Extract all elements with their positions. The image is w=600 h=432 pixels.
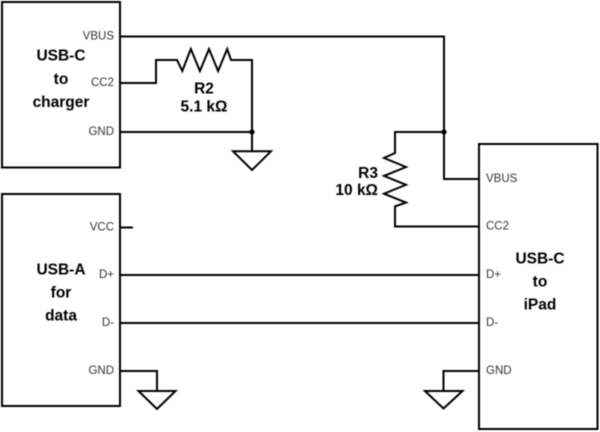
- svg-text:data: data: [45, 308, 77, 325]
- svg-text:10 kΩ: 10 kΩ: [335, 182, 378, 199]
- svg-text:CC2: CC2: [91, 77, 114, 89]
- svg-text:charger: charger: [33, 94, 90, 111]
- svg-text:5.1 kΩ: 5.1 kΩ: [181, 99, 228, 116]
- svg-text:USB-C: USB-C: [36, 48, 85, 65]
- svg-text:USB-C: USB-C: [515, 251, 564, 268]
- svg-text:R3: R3: [358, 165, 378, 182]
- svg-text:VBUS: VBUS: [486, 173, 518, 185]
- svg-text:GND: GND: [486, 365, 512, 377]
- svg-text:for: for: [51, 285, 72, 302]
- svg-text:USB-A: USB-A: [36, 262, 85, 279]
- svg-text:iPad: iPad: [524, 297, 557, 314]
- svg-text:D+: D+: [486, 269, 501, 281]
- svg-text:to: to: [533, 274, 548, 291]
- svg-text:VCC: VCC: [90, 222, 114, 234]
- svg-text:GND: GND: [88, 365, 114, 377]
- svg-text:CC2: CC2: [486, 221, 509, 233]
- svg-text:to: to: [54, 71, 69, 88]
- svg-text:VBUS: VBUS: [83, 31, 115, 43]
- svg-text:D+: D+: [99, 269, 114, 281]
- svg-text:D-: D-: [486, 317, 498, 329]
- svg-text:GND: GND: [88, 126, 114, 138]
- svg-text:R2: R2: [194, 81, 214, 98]
- svg-text:D-: D-: [102, 317, 114, 329]
